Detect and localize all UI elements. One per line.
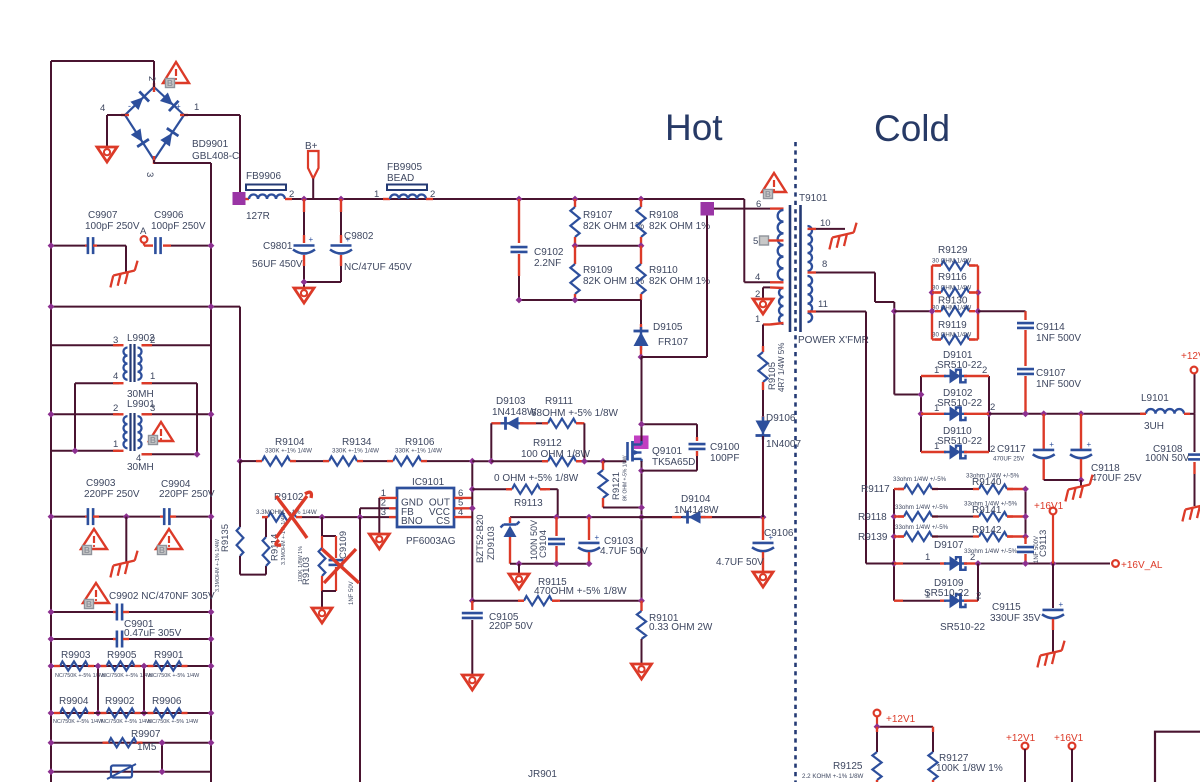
svg-text:NC/750K +-5% 1/4W: NC/750K +-5% 1/4W bbox=[101, 719, 152, 725]
red X over C9109 bbox=[322, 549, 359, 583]
capacitor C9100 100PF bbox=[642, 423, 698, 425]
svg-text:1NF 500V: 1NF 500V bbox=[1036, 333, 1081, 344]
resistor R9141 33ohm bbox=[979, 512, 1007, 521]
svg-text:4: 4 bbox=[113, 371, 118, 382]
svg-text:2: 2 bbox=[976, 591, 981, 602]
rectifier bank rails bbox=[920, 376, 922, 452]
svg-text:6: 6 bbox=[756, 199, 761, 210]
svg-text:127R: 127R bbox=[246, 211, 270, 222]
resistor R9901 NC/750K bbox=[154, 661, 182, 670]
svg-text:D9107: D9107 bbox=[934, 540, 964, 551]
svg-text:82K OHM 1%: 82K OHM 1% bbox=[649, 221, 710, 232]
svg-text:C9106: C9106 bbox=[764, 528, 794, 539]
svg-text:4R7 1/4W 5%: 4R7 1/4W 5% bbox=[777, 343, 786, 392]
node A bbox=[141, 236, 148, 243]
svg-text:L9101: L9101 bbox=[1141, 393, 1169, 404]
svg-text:B: B bbox=[167, 78, 173, 88]
wire +16V1 to row bbox=[1052, 514, 1054, 564]
bridge pin 1 wire bbox=[184, 114, 240, 116]
svg-text:4.7UF 50V: 4.7UF 50V bbox=[716, 557, 764, 568]
ferrite bead FB9906 127R bbox=[246, 185, 286, 191]
transformer primary winding pins 2-1 bbox=[779, 288, 784, 324]
svg-text:NC/750K +-5% 1/4W: NC/750K +-5% 1/4W bbox=[53, 719, 104, 725]
wire to +12V1 node bbox=[1190, 413, 1195, 415]
ground at pin 10 bbox=[825, 223, 861, 250]
svg-text:R9901: R9901 bbox=[154, 650, 184, 661]
svg-text:-: - bbox=[128, 101, 131, 111]
svg-text:3UH: 3UH bbox=[1144, 421, 1164, 432]
wire gate row bbox=[603, 460, 626, 462]
svg-text:+: + bbox=[1049, 440, 1054, 449]
svg-text:D9104: D9104 bbox=[681, 494, 711, 505]
svg-text:R9110: R9110 bbox=[649, 265, 678, 276]
svg-text:2: 2 bbox=[113, 403, 118, 414]
svg-text:BZT52-B20: BZT52-B20 bbox=[475, 514, 486, 563]
wire R9103 C9109 bottoms to ground bbox=[322, 590, 336, 592]
svg-text:1: 1 bbox=[150, 371, 155, 382]
wire pin 10 to ground bbox=[816, 228, 845, 230]
svg-text:33ohm 1/4W +/-5%: 33ohm 1/4W +/-5% bbox=[966, 473, 1020, 480]
svg-text:33ohm 1/4W +/-5%: 33ohm 1/4W +/-5% bbox=[893, 476, 947, 483]
capacitor C9106 4.7UF 50V bbox=[760, 514, 767, 521]
node +16V_AL bbox=[1112, 560, 1119, 567]
svg-text:B+: B+ bbox=[305, 141, 318, 152]
svg-text:NC/750K +-5% 1/4W: NC/750K +-5% 1/4W bbox=[148, 719, 199, 725]
svg-text:B: B bbox=[765, 189, 771, 199]
wire Q9101 drain column bbox=[641, 357, 643, 441]
svg-text:330UF 35V: 330UF 35V bbox=[990, 613, 1041, 624]
purple pad at FB9906 input bbox=[233, 192, 246, 205]
svg-text:1M5: 1M5 bbox=[137, 742, 157, 753]
svg-text:SR510-22: SR510-22 bbox=[937, 436, 982, 447]
svg-text:BEAD: BEAD bbox=[387, 173, 414, 184]
svg-text:+: + bbox=[176, 102, 181, 111]
svg-text:100K 1/8W 1%: 100K 1/8W 1% bbox=[298, 546, 304, 582]
wire B+ rail bbox=[292, 198, 744, 200]
varistor row wire bbox=[51, 771, 211, 773]
svg-text:100PF: 100PF bbox=[710, 453, 739, 464]
wire Q9101 source column bbox=[641, 461, 643, 601]
resistor R9134 330K bbox=[296, 460, 323, 462]
svg-text:56UF 450V: 56UF 450V bbox=[252, 259, 303, 270]
svg-text:R9121: R9121 bbox=[611, 472, 622, 500]
resistor R9103 100K crossed out bbox=[321, 517, 323, 536]
wire pin 4 to B+ rail bbox=[743, 199, 745, 282]
svg-text:B: B bbox=[150, 435, 156, 445]
svg-text:+12V1: +12V1 bbox=[1181, 351, 1200, 362]
capacitor C9109 1NF 50V crossed out bbox=[335, 536, 337, 558]
resistor R9119 30 OHM 1/4W bbox=[932, 338, 941, 340]
node +16V1 bbox=[1050, 508, 1057, 515]
svg-text:R9111: R9111 bbox=[545, 396, 573, 407]
svg-text:68OHM +-5% 1/8W: 68OHM +-5% 1/8W bbox=[531, 408, 619, 419]
svg-text:2: 2 bbox=[970, 552, 975, 563]
svg-text:82K OHM 1%: 82K OHM 1% bbox=[583, 221, 644, 232]
svg-text:82K OHM 1%: 82K OHM 1% bbox=[583, 276, 644, 287]
capacitor C9903 220PF 250V bbox=[51, 516, 85, 518]
svg-text:D9106: D9106 bbox=[766, 413, 796, 424]
svg-text:R9107: R9107 bbox=[583, 210, 613, 221]
svg-text:330K +-1% 1/4W: 330K +-1% 1/4W bbox=[395, 448, 442, 455]
svg-text:2: 2 bbox=[982, 365, 987, 376]
svg-text:R9104: R9104 bbox=[275, 437, 305, 448]
capacitor C9105 220P 50V bbox=[471, 601, 473, 610]
svg-text:33ohm 1/4W +/-5%: 33ohm 1/4W +/-5% bbox=[895, 504, 949, 511]
svg-text:Hot: Hot bbox=[665, 107, 723, 148]
svg-text:NC/750K +-5% 1/4W: NC/750K +-5% 1/4W bbox=[102, 673, 153, 679]
transformer secondary winding pins 8-11 bbox=[808, 276, 813, 322]
capacitor C9904 220PF 250V bbox=[126, 516, 160, 518]
resistor R9108 82K OHM 1% bbox=[638, 196, 645, 203]
svg-text:30 OHM 1/4W: 30 OHM 1/4W bbox=[932, 285, 971, 292]
svg-text:+12V1: +12V1 bbox=[1006, 733, 1036, 744]
resistor R9121 bbox=[602, 461, 604, 470]
varistor bbox=[111, 766, 132, 778]
svg-text:B: B bbox=[84, 545, 90, 555]
resistor R9109 82K OHM 1% bbox=[574, 246, 576, 264]
svg-text:220PF 250V: 220PF 250V bbox=[159, 489, 215, 500]
connector box corner bbox=[1155, 732, 1200, 782]
svg-text:R9116: R9116 bbox=[938, 272, 967, 283]
resistor R9114 3.3MOHM bbox=[265, 566, 267, 575]
ground at bridge pin 4 bbox=[97, 147, 117, 162]
capacitor C9117 470UF 25V bbox=[1042, 414, 1044, 449]
svg-text:D9103: D9103 bbox=[496, 396, 526, 407]
svg-text:FB9905: FB9905 bbox=[387, 162, 422, 173]
capacitor C9901 0.47uF 305V bbox=[51, 638, 113, 640]
resistor R9904 NC/750K bbox=[51, 712, 211, 714]
ground below R9103 bbox=[312, 608, 332, 623]
svg-text:0 OHM +-5% 1/8W: 0 OHM +-5% 1/8W bbox=[494, 473, 579, 484]
diode D9105 FR107 bbox=[640, 300, 642, 324]
resistor R9116 30 OHM 1/4W bbox=[932, 291, 941, 293]
svg-text:JR901: JR901 bbox=[528, 769, 557, 780]
capacitor C9118 470UF 25V bbox=[1080, 414, 1082, 449]
warning triangle below C9904 bbox=[156, 529, 182, 549]
hot-cold dashed separator bbox=[794, 142, 797, 782]
svg-text:30MH: 30MH bbox=[127, 462, 154, 473]
svg-text:2: 2 bbox=[990, 444, 995, 455]
wire pin 8 to rectifier bank bbox=[816, 272, 875, 274]
svg-text:CS: CS bbox=[436, 516, 450, 527]
resistor R9106 330K bbox=[363, 460, 387, 462]
svg-text:5: 5 bbox=[753, 236, 758, 247]
wire top rail bbox=[51, 60, 154, 62]
svg-text:C9117: C9117 bbox=[997, 444, 1026, 455]
svg-text:3: 3 bbox=[381, 507, 386, 518]
capacitor C9115 330UF 35V bbox=[1052, 564, 1054, 609]
svg-text:D9105: D9105 bbox=[653, 322, 683, 333]
IC pin1 GND wire to ground bbox=[379, 497, 397, 499]
svg-text:R9112: R9112 bbox=[533, 438, 562, 449]
svg-text:1NF 500V: 1NF 500V bbox=[1034, 536, 1040, 563]
svg-text:R9114: R9114 bbox=[270, 534, 281, 561]
ground below C9801 bbox=[294, 288, 314, 303]
transformer secondary winding pins 10-8 bbox=[808, 226, 813, 271]
resistor R9117 33ohm bbox=[894, 488, 904, 490]
svg-text:SR510-22: SR510-22 bbox=[937, 398, 982, 409]
resistor R9127 100K bbox=[932, 727, 934, 732]
capacitor C9103 4.7UF 50V bbox=[588, 517, 590, 540]
svg-text:SR510-22: SR510-22 bbox=[937, 360, 982, 371]
resistor R9907 1M5 bbox=[51, 742, 211, 744]
transformer core bbox=[789, 205, 792, 332]
resistor bank rails 30 OHM bbox=[931, 266, 933, 340]
diode D9101 SR510-22 bbox=[921, 375, 946, 377]
svg-text:NC/47UF 450V: NC/47UF 450V bbox=[344, 262, 412, 273]
warning triangle at bridge bbox=[163, 62, 189, 83]
svg-text:R9109: R9109 bbox=[583, 265, 613, 276]
svg-text:A: A bbox=[140, 226, 147, 237]
zener ZD9103 BZT52-B20 bbox=[509, 517, 511, 523]
svg-text:0.33 OHM 2W: 0.33 OHM 2W bbox=[649, 622, 713, 633]
ground at IC pin1 bbox=[369, 534, 389, 549]
resistor R9104 330K bbox=[237, 458, 244, 465]
svg-text:C9114: C9114 bbox=[1036, 322, 1065, 333]
svg-text:1: 1 bbox=[194, 102, 199, 113]
svg-text:R9118: R9118 bbox=[858, 512, 887, 523]
svg-text:C9906: C9906 bbox=[154, 210, 184, 221]
resistor R9903 NC/750K bbox=[51, 665, 211, 667]
wire FB node down to bottom edge bbox=[357, 514, 364, 521]
resistor R9112 100 OHM bbox=[472, 460, 491, 462]
capacitor C9802 NC/47UF 450V bbox=[340, 199, 342, 212]
svg-text:4.7UF 50V: 4.7UF 50V bbox=[600, 546, 648, 557]
ground below C9115 bbox=[1033, 641, 1069, 668]
warning triangle at L9901 bbox=[149, 422, 173, 441]
svg-text:R9106: R9106 bbox=[405, 437, 435, 448]
bridge pin 4 wire bbox=[107, 114, 125, 116]
svg-text:1N4007: 1N4007 bbox=[766, 439, 801, 450]
svg-text:82K OHM 1%: 82K OHM 1% bbox=[649, 276, 710, 287]
svg-text:3: 3 bbox=[150, 403, 155, 414]
svg-text:C9802: C9802 bbox=[344, 231, 374, 242]
wire cap bottoms to ground bbox=[304, 281, 341, 283]
svg-text:+: + bbox=[1059, 600, 1064, 609]
capacitor C9907 100pF 250V bbox=[51, 245, 85, 247]
svg-text:NC/750K +-5% 1/4W: NC/750K +-5% 1/4W bbox=[149, 673, 200, 679]
svg-text:1: 1 bbox=[755, 314, 760, 325]
svg-text:Q9101: Q9101 bbox=[652, 446, 682, 457]
svg-text:2: 2 bbox=[990, 402, 995, 413]
diode D9104 1N4148W bbox=[642, 516, 673, 518]
svg-text:30 OHM 1/4W: 30 OHM 1/4W bbox=[932, 332, 971, 339]
wire right AC rail bbox=[210, 163, 212, 782]
svg-text:T9101: T9101 bbox=[799, 193, 828, 204]
warning triangle at T9101 bbox=[762, 173, 786, 192]
node +16V1 stub bbox=[1069, 743, 1076, 750]
capacitor C9801 56UF 450V bbox=[303, 199, 305, 212]
svg-text:BD9901: BD9901 bbox=[192, 139, 229, 150]
wire +12V output rail bbox=[989, 413, 1146, 415]
svg-text:C9903: C9903 bbox=[86, 478, 116, 489]
IC9101 PF6003AG bbox=[397, 488, 454, 527]
svg-text:R9906: R9906 bbox=[152, 696, 182, 707]
svg-text:R9903: R9903 bbox=[61, 650, 91, 661]
resistor R9906 NC/750K bbox=[154, 708, 182, 717]
33ohm bank left rail bbox=[893, 489, 895, 601]
B+ terminal bbox=[308, 151, 319, 179]
diode D9109 SR510-22 bbox=[894, 600, 903, 602]
wire bottom row of 82K bank bbox=[519, 299, 641, 301]
svg-text:1N4148W: 1N4148W bbox=[674, 505, 719, 516]
ground below C9108 bbox=[1178, 495, 1200, 522]
svg-text:3.3MOHM +-1% 1/4W: 3.3MOHM +-1% 1/4W bbox=[215, 538, 221, 592]
bridge rectifier BD9901 GBL408-C bbox=[125, 87, 184, 160]
svg-text:C9115: C9115 bbox=[992, 602, 1021, 613]
resistor R9905 NC/750K bbox=[107, 661, 135, 670]
svg-text:30 OHM 1/4W: 30 OHM 1/4W bbox=[932, 305, 971, 312]
svg-text:100 OHM 1/8W: 100 OHM 1/8W bbox=[521, 449, 590, 460]
svg-text:1: 1 bbox=[374, 189, 379, 200]
resistor R9902 NC/750K bbox=[107, 708, 135, 717]
resistor R9135 3.3MOHM bbox=[239, 461, 241, 527]
wire pad to pin 6 bbox=[714, 208, 770, 210]
svg-text:SR510-22: SR510-22 bbox=[924, 588, 969, 599]
svg-text:1: 1 bbox=[934, 441, 939, 452]
wire pin8 node to 30ohm bank bbox=[894, 310, 932, 312]
svg-text:+: + bbox=[595, 533, 600, 542]
svg-text:2.2NF: 2.2NF bbox=[534, 258, 561, 269]
red X over R9102 bbox=[276, 492, 311, 545]
resistor R9105 4R7 bbox=[763, 323, 770, 325]
svg-text:GBL408-C: GBL408-C bbox=[192, 151, 239, 162]
diode D9106 1N4007 bbox=[762, 417, 764, 440]
svg-text:B: B bbox=[159, 545, 165, 555]
svg-text:1: 1 bbox=[934, 365, 939, 376]
resistor R9102 3.3MOHM crossed out bbox=[262, 516, 266, 518]
svg-text:220P 50V: 220P 50V bbox=[489, 621, 533, 632]
svg-text:33ohm 1/4W +/-5%: 33ohm 1/4W +/-5% bbox=[964, 501, 1018, 508]
wire pin 11 down to D9107 row bbox=[816, 311, 866, 313]
svg-text:8K OHM +-5% 1/8W: 8K OHM +-5% 1/8W bbox=[623, 455, 629, 501]
capacitor C9108 100N 50V bbox=[1194, 414, 1196, 452]
diode D9110 SR510-22 bbox=[921, 451, 946, 453]
svg-text:C9107: C9107 bbox=[1036, 368, 1066, 379]
ground below C9105 bbox=[462, 675, 482, 690]
svg-text:R9907: R9907 bbox=[131, 729, 161, 740]
wire +12V1 to resistors bbox=[876, 716, 878, 727]
resistor R9125 2.2 KOHM bbox=[876, 727, 878, 732]
svg-text:470OHM +-5% 1/8W: 470OHM +-5% 1/8W bbox=[534, 586, 627, 597]
diode D9103 1N4148W bbox=[491, 422, 504, 424]
ground stub between C9903 C9904 bbox=[123, 513, 130, 520]
ground below C9118 bbox=[1061, 475, 1097, 502]
capacitor C9902 NC/470NF 305V bbox=[51, 611, 113, 613]
transistor Q9101 TK5A65D bbox=[634, 436, 649, 450]
svg-text:PF6003AG: PF6003AG bbox=[406, 536, 456, 547]
ferrite bead FB9905 BEAD bbox=[387, 185, 427, 191]
svg-text:R9113: R9113 bbox=[514, 498, 543, 509]
svg-text:R9119: R9119 bbox=[938, 320, 967, 331]
svg-text:1NF 500V: 1NF 500V bbox=[1036, 379, 1081, 390]
svg-text:100pF 250V: 100pF 250V bbox=[85, 221, 140, 232]
purple pad at transformer pin 6 bbox=[701, 202, 715, 216]
svg-text:470UF 25V: 470UF 25V bbox=[993, 456, 1025, 463]
capacitor C9102 2.2NF bbox=[516, 196, 523, 203]
node +12V1 bbox=[1191, 367, 1198, 374]
resistor R9110 82K OHM 1% bbox=[640, 246, 642, 264]
svg-text:R9125: R9125 bbox=[833, 761, 863, 772]
capacitor C9107 1NF 500V bbox=[1017, 368, 1034, 371]
svg-text:33ohm 1/4W +/-5%: 33ohm 1/4W +/-5% bbox=[895, 524, 949, 531]
svg-text:10: 10 bbox=[820, 218, 831, 229]
svg-text:FB9906: FB9906 bbox=[246, 171, 281, 182]
wire VCC bottom row bbox=[510, 563, 589, 565]
wire row to R9104 bank bbox=[51, 306, 240, 308]
wire D9103 row verticals bbox=[490, 423, 492, 461]
resistor R9130 30 OHM 1/4W bbox=[941, 307, 969, 316]
svg-text:1: 1 bbox=[113, 439, 118, 450]
svg-text:100N 50V: 100N 50V bbox=[529, 520, 539, 560]
wire R9102 row to IC pin3 BNO bbox=[319, 514, 326, 521]
svg-text:4: 4 bbox=[100, 103, 105, 114]
capacitor C9114 1NF 500V bbox=[1024, 311, 1026, 320]
33ohm bank right rail bbox=[1025, 489, 1027, 537]
svg-text:FR107: FR107 bbox=[658, 337, 688, 348]
svg-text:100pF 250V: 100pF 250V bbox=[151, 221, 206, 232]
svg-text:8: 8 bbox=[822, 259, 827, 270]
svg-text:R9134: R9134 bbox=[342, 437, 372, 448]
svg-text:1: 1 bbox=[934, 403, 939, 414]
resistor R9113 0 OHM bbox=[472, 488, 506, 490]
resistor R9140 33ohm bbox=[978, 488, 980, 490]
svg-text:100N 50V: 100N 50V bbox=[1145, 453, 1190, 464]
svg-text:C9801: C9801 bbox=[263, 241, 293, 252]
svg-text:C9902 NC/470NF 305V: C9902 NC/470NF 305V bbox=[109, 591, 215, 602]
diode D9107 bbox=[866, 563, 894, 565]
svg-text:30 OHM 1/4W: 30 OHM 1/4W bbox=[932, 258, 971, 265]
svg-text:R9902: R9902 bbox=[105, 696, 135, 707]
svg-text:+16V1: +16V1 bbox=[1034, 501, 1064, 512]
svg-text:ZD9103: ZD9103 bbox=[486, 526, 497, 560]
svg-text:IC9101: IC9101 bbox=[412, 477, 445, 488]
wire mid row of 82K bank bbox=[575, 245, 641, 247]
svg-text:C9907: C9907 bbox=[88, 210, 118, 221]
svg-text:R9904: R9904 bbox=[59, 696, 89, 707]
resistor R9101 0.33 OHM 2W bbox=[638, 597, 645, 604]
vertical bus at IC right bbox=[471, 461, 473, 601]
svg-text:3: 3 bbox=[144, 172, 155, 177]
svg-text:+16V_AL: +16V_AL bbox=[1121, 560, 1163, 571]
svg-text:R9108: R9108 bbox=[649, 210, 679, 221]
svg-text:11: 11 bbox=[818, 299, 828, 310]
svg-text:+16V1: +16V1 bbox=[1054, 733, 1084, 744]
svg-text:C9104: C9104 bbox=[538, 530, 549, 558]
resistor R9139 33ohm bbox=[894, 535, 904, 537]
resistor R9107 82K OHM 1% bbox=[572, 196, 579, 203]
svg-text:1NF 50V: 1NF 50V bbox=[349, 581, 355, 605]
svg-text:BNO: BNO bbox=[401, 516, 423, 527]
wire left AC rail bbox=[50, 61, 52, 782]
svg-text:C9100: C9100 bbox=[710, 442, 740, 453]
ground below ZD9103 bbox=[518, 564, 520, 573]
svg-text:2: 2 bbox=[146, 76, 157, 81]
svg-text:0.47uF 305V: 0.47uF 305V bbox=[124, 628, 182, 639]
ground below R9101 bbox=[632, 664, 652, 679]
svg-text:330K +-1% 1/4W: 330K +-1% 1/4W bbox=[332, 448, 379, 455]
svg-text:C9109: C9109 bbox=[338, 531, 349, 559]
inductor L9101 3UH bbox=[1146, 409, 1184, 414]
node +12V1 bottom bbox=[874, 710, 881, 717]
svg-text:1: 1 bbox=[925, 590, 930, 601]
capacitor C9906 100pF 250V bbox=[143, 242, 145, 246]
resistor R9115 470OHM bbox=[469, 597, 476, 604]
svg-text:+12V1: +12V1 bbox=[886, 714, 916, 725]
svg-text:+: + bbox=[1087, 440, 1092, 449]
svg-text:100K 1/8W 1%: 100K 1/8W 1% bbox=[936, 763, 1003, 774]
ground at transformer pin 2 bbox=[763, 286, 770, 288]
